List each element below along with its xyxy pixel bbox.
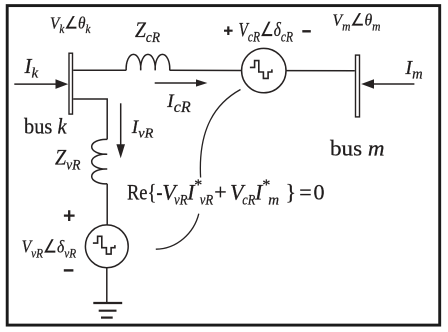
svg-text:0: 0 [314, 180, 325, 205]
svg-text:cR: cR [242, 192, 255, 208]
svg-text:Ik: Ik [24, 54, 39, 82]
svg-text:VcR∠δcR: VcR∠δcR [239, 20, 294, 46]
svg-text:bus m: bus m [330, 136, 385, 161]
svg-text:+: + [214, 180, 226, 205]
svg-text:VvR∠δvR: VvR∠δvR [22, 237, 77, 261]
svg-text:vR: vR [174, 192, 188, 208]
svg-text:Im: Im [404, 57, 422, 83]
svg-text:IcR: IcR [166, 91, 191, 116]
svg-text:ZcR: ZcR [135, 17, 160, 46]
svg-text:Vm∠θm: Vm∠θm [333, 11, 381, 34]
svg-text:Vk∠θk: Vk∠θk [50, 14, 91, 36]
svg-text:ZvR: ZvR [55, 144, 81, 173]
svg-text:bus k: bus k [24, 114, 68, 139]
svg-text:vR: vR [200, 192, 214, 208]
svg-text:IvR: IvR [131, 117, 154, 142]
svg-text:}: } [286, 180, 297, 205]
svg-text:=: = [299, 180, 311, 205]
svg-text:Re{-: Re{- [127, 180, 163, 205]
svg-text:m: m [268, 192, 279, 208]
